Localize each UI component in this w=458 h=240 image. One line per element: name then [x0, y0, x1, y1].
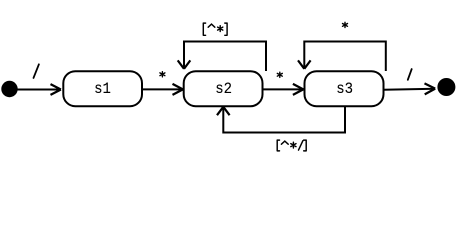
svg-text:s2: s2: [215, 81, 232, 98]
svg-text:s3: s3: [336, 81, 353, 98]
svg-text:s1: s1: [94, 81, 111, 98]
